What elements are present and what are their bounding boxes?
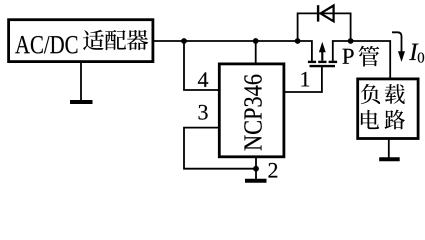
MOSFET Q1 gate bar bbox=[310, 65, 336, 67]
pin label 1 bbox=[301, 72, 309, 87]
diode D1 triangle (anode, pointing left) bbox=[321, 6, 334, 22]
MOSFET Q1 channel bar left (source contact) bbox=[308, 61, 316, 63]
MOSFET Q1 channel bar right (drain contact) bbox=[329, 61, 338, 63]
wire: rail down to NCP346 top bbox=[255, 41, 257, 64]
load circuit box bbox=[358, 79, 418, 139]
diode D1 cathode bar bbox=[317, 5, 319, 21]
current I0 arrow head (points down) bbox=[398, 51, 405, 62]
wire: pin 3 loop to pin 2 node bbox=[184, 128, 256, 169]
node: output junction diode right leg bbox=[348, 38, 354, 44]
wire: diode branch (left leg, top, right leg) bbox=[298, 13, 351, 41]
wire: rail from adapter to MOSFET source lead bbox=[154, 41, 312, 62]
load label 电 bbox=[361, 110, 379, 129]
load label 负 bbox=[361, 84, 380, 104]
wire: drain lead to output and down to load bbox=[333, 41, 390, 79]
pin label 2 bbox=[268, 163, 277, 178]
wire: pin 1 to MOSFET gate bbox=[284, 67, 322, 93]
ground bar (adapter) bbox=[70, 100, 93, 104]
wire: pin 2 down to ground bbox=[255, 157, 257, 180]
pin label 3 bbox=[199, 105, 208, 120]
MOSFET Q1 channel bar middle (body contact) bbox=[318, 61, 326, 63]
label P (of P 管) bbox=[342, 49, 353, 64]
load label 载 bbox=[385, 84, 405, 104]
pin label 4 bbox=[198, 72, 208, 86]
IC U1 NCP346 box bbox=[219, 64, 284, 157]
ground lead (adapter) bbox=[80, 62, 82, 101]
AC/DC adapter label 配 bbox=[105, 30, 126, 50]
load label 路 bbox=[385, 110, 405, 130]
ground bar (pin 2) bbox=[245, 179, 267, 183]
label 0 (subscript) bbox=[418, 53, 424, 63]
node: junction to NCP346 top bbox=[253, 38, 259, 44]
IC label NCP346 (rotated 90 CCW) bbox=[244, 75, 261, 151]
AC/DC adapter label 适 bbox=[83, 30, 104, 50]
ground bar (load) bbox=[379, 157, 400, 161]
current I0 arrow hook bbox=[392, 32, 402, 52]
MOSFET Q1 body arrow head (points up) bbox=[319, 42, 326, 53]
AC/DC adapter label 器 bbox=[127, 30, 148, 50]
node: pin2/pin3 junction bbox=[253, 166, 259, 172]
label 管 (of P 管) bbox=[359, 46, 380, 67]
AC/DC adapter box bbox=[9, 20, 153, 62]
label I (italic) bbox=[409, 44, 418, 60]
MOSFET Q1 body arrow shaft bbox=[321, 51, 323, 61]
node: junction to pin 4 bbox=[181, 38, 187, 44]
wire: pin 4 from rail junction bbox=[184, 41, 219, 90]
AC/DC adapter label "AC/DC" bbox=[15, 36, 77, 53]
ground lead (load) bbox=[388, 139, 390, 159]
node: junction diode left leg bbox=[295, 38, 301, 44]
